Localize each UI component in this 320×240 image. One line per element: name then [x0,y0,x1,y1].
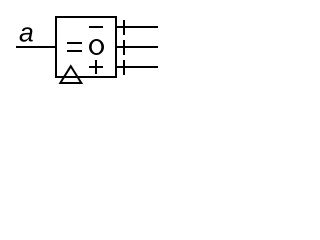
wire (output line 2) [116,46,158,48]
svg-text:a: a [19,18,34,48]
qualifier overbar above O [89,26,103,28]
polarity tick on output 1 [123,20,125,35]
open-collector triangle on box bottom edge [60,66,81,83]
wire (output line 1) [116,26,158,28]
wire (output line 3) [116,66,158,68]
qualifier = sign [67,43,82,51]
qualifier O (letter ring) [89,39,104,55]
polarity tick on output 3 [123,60,125,75]
wire (input from a to box) [16,46,57,48]
polarity tick on output 2 [123,40,125,55]
logic block U1 (box outline) [56,17,116,77]
qualifier + sign [89,60,103,74]
